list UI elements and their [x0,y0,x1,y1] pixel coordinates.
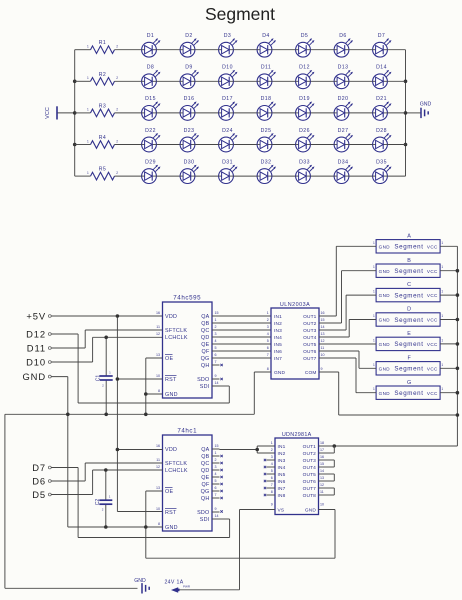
svg-text:1: 1 [373,363,375,367]
svg-text:D24: D24 [222,128,233,134]
svg-text:9: 9 [215,507,217,511]
svg-text:D28: D28 [376,128,387,134]
svg-text:D2: D2 [185,33,192,39]
svg-text:D6: D6 [339,33,346,39]
svg-text:VCC: VCC [427,342,438,347]
svg-text:7: 7 [215,493,217,497]
svg-text:D21: D21 [376,96,387,102]
svg-text:D29: D29 [145,159,156,165]
svg-text:OUT3: OUT3 [303,458,317,464]
svg-text:QG: QG [201,356,210,362]
svg-text:QH: QH [201,496,210,502]
svg-text:R1: R1 [99,40,106,46]
svg-text:2: 2 [267,318,269,322]
svg-text:1: 1 [441,241,443,245]
svg-text:14: 14 [215,514,219,518]
svg-text:D31: D31 [222,159,233,165]
svg-text:2: 2 [116,76,118,80]
svg-text:R5: R5 [99,167,106,173]
svg-text:D35: D35 [376,159,387,165]
svg-text:5: 5 [271,469,273,473]
svg-text:QA: QA [201,447,209,453]
svg-text:QH: QH [201,363,210,369]
svg-text:1: 1 [441,338,443,342]
svg-text:74hc1: 74hc1 [177,428,197,435]
svg-text:15: 15 [215,311,219,315]
svg-text:VCC: VCC [427,366,438,371]
svg-text:16: 16 [321,311,325,315]
svg-text:IN6: IN6 [278,479,286,485]
svg-text:1: 1 [87,45,89,49]
svg-text:5: 5 [215,479,217,483]
svg-text:VCC: VCC [427,293,438,298]
svg-text:7: 7 [215,360,217,364]
svg-text:IN3: IN3 [274,328,282,334]
svg-text:VCC: VCC [45,107,51,119]
svg-text:IN1: IN1 [278,444,286,450]
svg-text:IN7: IN7 [278,486,286,492]
svg-text:2: 2 [116,108,118,112]
svg-text:2: 2 [116,139,118,143]
svg-text:1: 1 [373,314,375,318]
svg-text:1: 1 [87,171,89,175]
svg-text:1: 1 [441,314,443,318]
svg-text:OUT8: OUT8 [303,493,317,499]
svg-text:VDD: VDD [165,447,177,453]
svg-text:8: 8 [267,367,269,371]
svg-text:UDN2981A: UDN2981A [282,432,312,438]
svg-text:6: 6 [267,346,269,350]
svg-text:8: 8 [158,389,160,393]
svg-text:2: 2 [116,45,118,49]
svg-text:D34: D34 [338,159,349,165]
svg-text:C1: C1 [96,375,102,382]
svg-text:IN4: IN4 [278,465,286,471]
svg-text:GND: GND [379,342,391,347]
svg-text:D13: D13 [338,65,349,71]
svg-text:Segment: Segment [394,244,423,251]
svg-text:D16: D16 [184,96,195,102]
svg-text:1: 1 [441,387,443,391]
svg-text:GND: GND [420,102,432,108]
svg-text:10: 10 [156,374,160,378]
svg-text:GND: GND [379,391,391,396]
svg-text:D15: D15 [145,96,156,102]
svg-text:PWR: PWR [183,585,191,589]
svg-text:D25: D25 [261,128,272,134]
svg-text:16: 16 [156,311,160,315]
svg-text:14: 14 [321,325,325,329]
svg-text:QA: QA [201,314,209,320]
svg-text:5: 5 [215,346,217,350]
svg-text:VCC: VCC [427,391,438,396]
svg-text:D10: D10 [222,65,233,71]
svg-text:24V 1A: 24V 1A [164,580,183,586]
svg-text:OUT1: OUT1 [303,444,317,450]
svg-text:D33: D33 [299,159,310,165]
svg-text:12: 12 [321,339,325,343]
svg-text:D11: D11 [261,65,271,71]
svg-text:9: 9 [215,374,217,378]
svg-text:LCHCLK: LCHCLK [165,468,188,474]
svg-text:OUT6: OUT6 [303,349,317,355]
svg-text:Segment: Segment [394,390,423,397]
svg-text:D30: D30 [184,159,195,165]
svg-text:17: 17 [320,448,324,452]
svg-text:Segment: Segment [205,4,275,24]
svg-text:13: 13 [321,332,325,336]
svg-text:6: 6 [271,476,273,480]
svg-text:IN4: IN4 [274,335,282,341]
svg-text:D19: D19 [299,96,310,102]
svg-text:SFTCLK: SFTCLK [165,461,187,467]
svg-text:VCC: VCC [427,244,438,249]
svg-text:D17: D17 [222,96,233,102]
svg-text:3: 3 [215,465,217,469]
svg-text:4: 4 [215,472,217,476]
svg-text:E: E [407,331,411,337]
svg-text:OUT1: OUT1 [303,314,317,320]
svg-text:GND: GND [379,366,391,371]
svg-text:14: 14 [320,469,324,473]
svg-text:QC: QC [201,328,210,334]
svg-text:9: 9 [271,503,273,507]
svg-text:QF: QF [202,349,210,355]
svg-text:1: 1 [267,311,269,315]
svg-text:Segment: Segment [394,268,423,275]
svg-text:D8: D8 [147,65,154,71]
svg-text:15: 15 [321,318,325,322]
svg-text:QD: QD [201,468,210,474]
svg-text:2: 2 [215,458,217,462]
svg-text:ULN2003A: ULN2003A [280,302,310,308]
svg-text:VS: VS [278,508,285,514]
svg-text:D9: D9 [185,65,192,71]
svg-text:QG: QG [201,489,210,495]
svg-text:D7: D7 [378,33,385,39]
svg-text:D12: D12 [299,65,310,71]
svg-text:D12: D12 [26,328,46,339]
svg-text:IN1: IN1 [274,314,282,320]
svg-text:GND: GND [379,244,391,249]
svg-text:11: 11 [321,346,325,350]
svg-text:D7: D7 [32,462,46,473]
svg-text:1: 1 [215,451,217,455]
svg-text:D23: D23 [184,128,195,134]
svg-text:10: 10 [320,503,324,507]
svg-text:D22: D22 [145,128,156,134]
svg-text:OUT5: OUT5 [303,472,317,478]
svg-text:4: 4 [215,339,217,343]
svg-text:3: 3 [267,325,269,329]
svg-text:SFTCLK: SFTCLK [165,328,187,334]
svg-text:13: 13 [156,353,160,357]
svg-text:9: 9 [321,367,323,371]
svg-text:15: 15 [215,444,219,448]
svg-text:VDD: VDD [165,314,177,320]
svg-text:6: 6 [215,353,217,357]
svg-text:D5: D5 [32,489,46,500]
svg-text:QD: QD [201,335,210,341]
svg-text:10: 10 [156,507,160,511]
svg-text:IN2: IN2 [278,451,286,457]
svg-text:QF: QF [202,482,210,488]
svg-text:D20: D20 [338,96,349,102]
svg-text:1: 1 [87,76,89,80]
svg-text:OUT7: OUT7 [303,356,317,362]
svg-text:QE: QE [201,475,209,481]
svg-text:1: 1 [373,387,375,391]
svg-text:Segment: Segment [394,366,423,373]
svg-text:R4: R4 [99,135,106,141]
svg-text:SDO: SDO [197,510,209,516]
svg-text:QC: QC [201,461,210,467]
svg-text:1: 1 [441,363,443,367]
svg-text:GND: GND [165,392,178,398]
svg-text:OE: OE [165,489,173,495]
svg-text:11: 11 [156,458,160,462]
svg-text:5: 5 [267,339,269,343]
svg-text:VCC: VCC [427,269,438,274]
svg-text:2: 2 [271,448,273,452]
svg-text:IN6: IN6 [274,349,282,355]
svg-text:Segment: Segment [394,341,423,348]
svg-text:16: 16 [320,455,324,459]
svg-text:3: 3 [271,455,273,459]
svg-text:Segment: Segment [394,317,423,324]
svg-text:D26: D26 [299,128,310,134]
svg-text:1: 1 [87,139,89,143]
svg-text:OUT7: OUT7 [303,486,317,492]
svg-text:4: 4 [267,332,269,336]
svg-text:OUT3: OUT3 [303,328,317,334]
svg-text:D1: D1 [147,33,154,39]
svg-text:GND: GND [379,293,391,298]
svg-text:GND: GND [379,318,391,323]
svg-text:D: D [407,307,411,313]
svg-text:1: 1 [373,338,375,342]
svg-text:Segment: Segment [394,292,423,299]
svg-text:SDO: SDO [197,377,209,383]
svg-text:GND: GND [305,508,316,514]
svg-text:11: 11 [320,490,324,494]
svg-text:C2: C2 [95,499,101,506]
svg-text:8: 8 [158,522,160,526]
svg-text:RST: RST [165,377,177,383]
svg-text:OE: OE [165,356,173,362]
svg-text:C: C [407,282,411,288]
svg-text:D10: D10 [26,356,46,367]
svg-text:12: 12 [156,465,160,469]
svg-text:16: 16 [156,444,160,448]
svg-text:R2: R2 [99,72,106,78]
svg-text:D6: D6 [32,475,46,486]
svg-text:1: 1 [215,318,217,322]
svg-text:1: 1 [373,265,375,269]
svg-text:15: 15 [320,462,324,466]
svg-text:QE: QE [201,342,209,348]
svg-text:74hc595: 74hc595 [173,295,201,302]
svg-text:D4: D4 [262,33,269,39]
svg-text:11: 11 [156,325,160,329]
svg-text:D5: D5 [301,33,308,39]
svg-text:1: 1 [87,108,89,112]
svg-text:D32: D32 [261,159,272,165]
svg-text:OUT4: OUT4 [303,335,317,341]
svg-text:D18: D18 [261,96,272,102]
svg-text:13: 13 [320,476,324,480]
svg-text:GND: GND [134,578,146,584]
svg-text:1: 1 [373,290,375,294]
svg-text:IN5: IN5 [278,472,286,478]
svg-text:1: 1 [441,265,443,269]
svg-text:SDI: SDI [200,517,210,523]
svg-text:13: 13 [156,486,160,490]
svg-text:3: 3 [215,332,217,336]
svg-text:OUT4: OUT4 [303,465,317,471]
svg-text:+5V: +5V [26,310,46,321]
svg-text:2: 2 [215,325,217,329]
svg-text:GND: GND [379,269,391,274]
svg-text:D14: D14 [376,65,387,71]
svg-text:IN5: IN5 [274,342,282,348]
svg-text:12: 12 [156,332,160,336]
svg-text:18: 18 [320,441,324,445]
svg-text:8: 8 [271,490,273,494]
svg-text:OUT5: OUT5 [303,342,317,348]
svg-text:OUT6: OUT6 [303,479,317,485]
svg-text:IN8: IN8 [278,493,286,499]
svg-text:7: 7 [271,483,273,487]
svg-text:OUT2: OUT2 [303,451,317,457]
svg-text:1: 1 [441,290,443,294]
svg-text:VCC: VCC [427,318,438,323]
svg-text:IN7: IN7 [274,356,282,362]
svg-text:R3: R3 [99,103,106,109]
svg-text:QB: QB [201,321,209,327]
svg-text:D27: D27 [338,128,349,134]
svg-text:LCHCLK: LCHCLK [165,335,188,341]
svg-text:B: B [407,258,411,264]
svg-text:12: 12 [320,483,324,487]
svg-text:SDI: SDI [200,384,210,390]
svg-text:4: 4 [271,462,273,466]
svg-text:COM: COM [305,370,317,376]
svg-text:D3: D3 [224,33,231,39]
svg-text:14: 14 [215,381,219,385]
svg-text:RST: RST [165,510,177,516]
svg-text:2: 2 [116,171,118,175]
svg-text:GND: GND [22,371,46,382]
svg-text:G: G [407,380,411,386]
svg-text:7: 7 [267,353,269,357]
svg-text:IN2: IN2 [274,321,282,327]
svg-text:6: 6 [215,486,217,490]
svg-text:A: A [407,233,411,239]
svg-text:1: 1 [373,241,375,245]
svg-text:GND: GND [165,525,178,531]
svg-text:OUT2: OUT2 [303,321,317,327]
svg-text:10: 10 [321,353,325,357]
svg-text:IN3: IN3 [278,458,286,464]
svg-text:GND: GND [274,370,285,376]
svg-text:1: 1 [271,441,273,445]
svg-text:D11: D11 [27,342,46,353]
svg-text:QB: QB [201,454,209,460]
